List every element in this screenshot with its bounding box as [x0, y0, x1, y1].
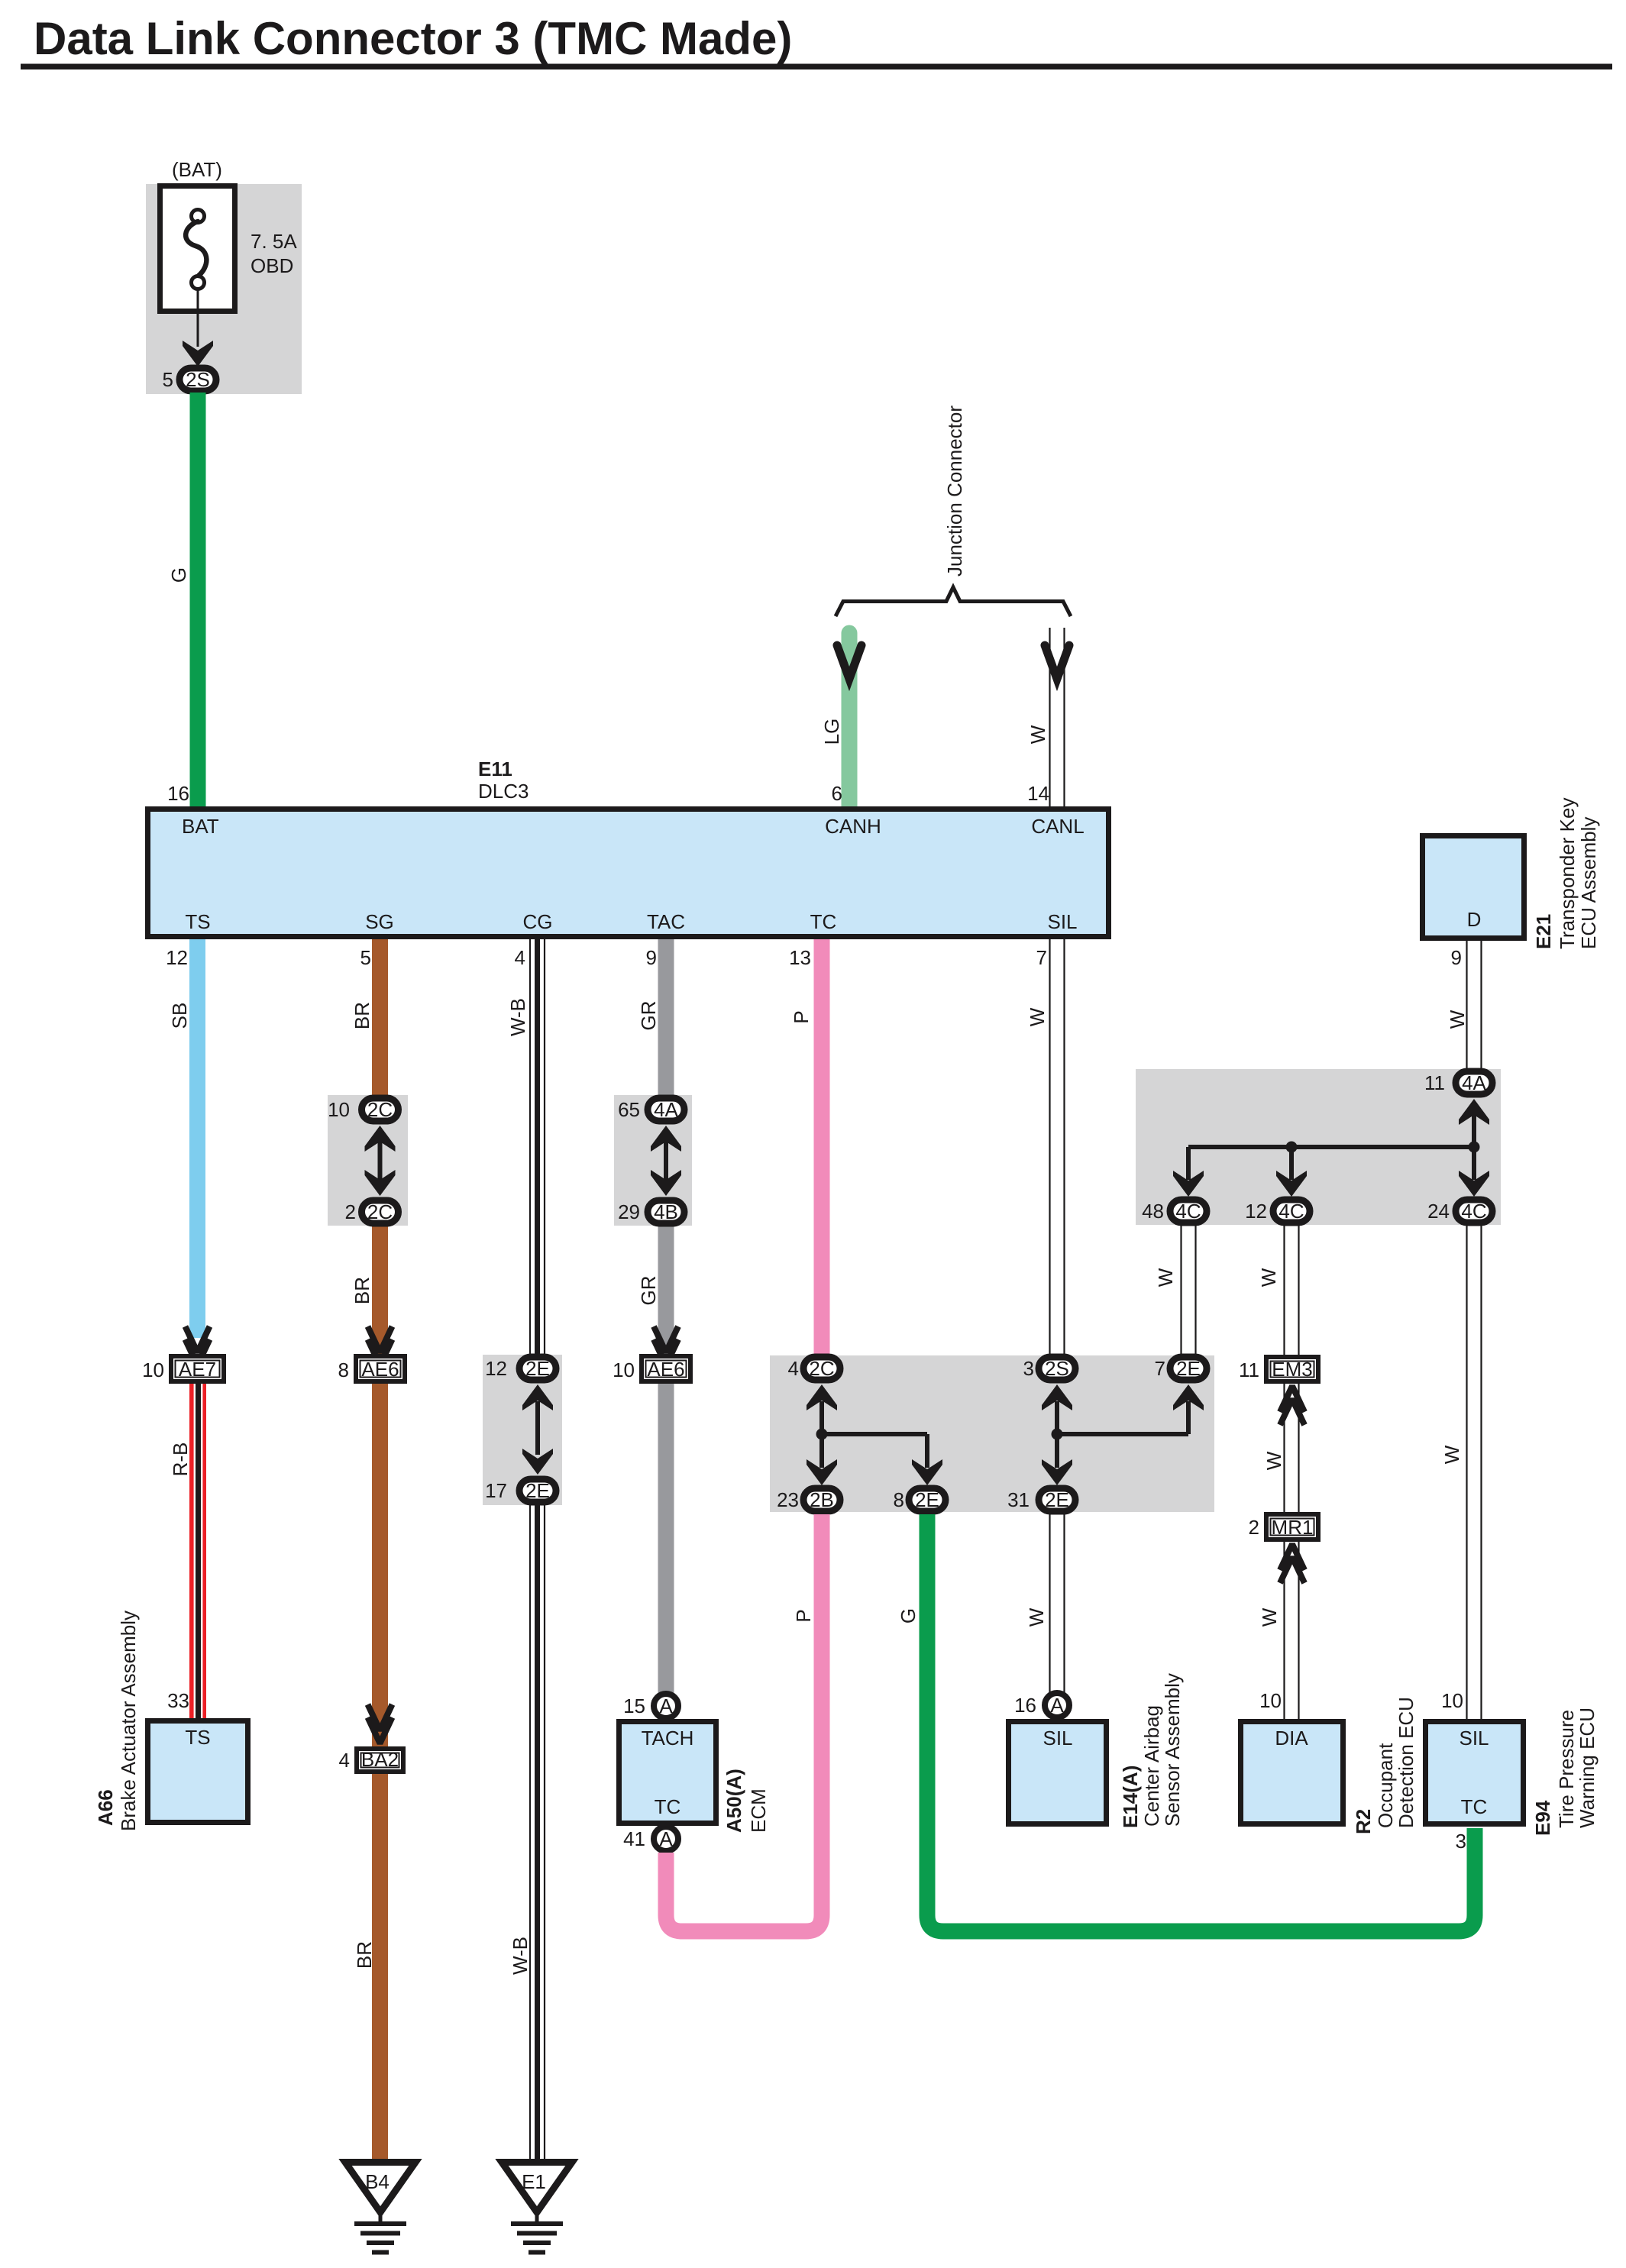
svg-text:G: G	[167, 567, 190, 583]
svg-text:TACH: TACH	[642, 1727, 694, 1749]
svg-text:(BAT): (BAT)	[172, 158, 222, 181]
component E94 Tire Pressure Warning ECU box	[1426, 1722, 1524, 1824]
svg-text:W: W	[1262, 1451, 1285, 1470]
svg-text:12: 12	[166, 946, 188, 969]
svg-text:CANL: CANL	[1031, 815, 1084, 838]
svg-text:10: 10	[142, 1359, 164, 1381]
svg-text:7. 5A: 7. 5A	[251, 230, 297, 253]
arrow into connector AE6 (TAC)	[654, 1326, 678, 1365]
connector BA2 pin 4	[357, 1748, 403, 1772]
svg-text:6: 6	[832, 782, 842, 805]
component A66 Brake Actuator Assembly box	[148, 1721, 248, 1823]
wire W from 2E pin 31 to E14	[1050, 1514, 1065, 1693]
svg-text:W: W	[1026, 1007, 1049, 1026]
svg-text:DIA: DIA	[1275, 1727, 1308, 1749]
svg-text:4B: 4B	[654, 1200, 678, 1223]
connector A pin 41 (ECM)	[654, 1827, 678, 1851]
svg-text:GR: GR	[637, 1276, 660, 1306]
svg-text:W: W	[1154, 1268, 1177, 1287]
svg-text:24: 24	[1427, 1200, 1450, 1223]
svg-text:BR: BR	[351, 1277, 373, 1304]
svg-text:2E: 2E	[1045, 1488, 1069, 1511]
connector 2E pin 8	[909, 1488, 946, 1511]
svg-text:BR: BR	[353, 1941, 376, 1969]
svg-text:17: 17	[485, 1479, 507, 1502]
arrow on CANL wire	[1045, 645, 1069, 679]
svg-text:W: W	[1446, 1010, 1469, 1029]
link 2C to 2B and 2E	[807, 1384, 942, 1485]
svg-text:A: A	[659, 1827, 673, 1850]
connector 4C pin 48	[1170, 1200, 1207, 1223]
wire GR from DLC3 pin 9 (upper)	[658, 939, 674, 1113]
svg-text:D: D	[1467, 908, 1482, 931]
svg-text:W: W	[1025, 1607, 1048, 1627]
wire BR from DLC3 pin 5 (upper)	[372, 939, 388, 1113]
link between 2C connectors	[365, 1126, 396, 1196]
svg-text:AE7: AE7	[179, 1358, 216, 1381]
connector 4C pin 12	[1273, 1200, 1310, 1223]
svg-text:MR1: MR1	[1272, 1516, 1314, 1539]
title underline	[21, 64, 1612, 70]
connector 2S pin 3	[1039, 1357, 1075, 1380]
svg-text:CANH: CANH	[825, 815, 881, 838]
connector AE6 pin 10	[642, 1356, 690, 1381]
wire W CANL from junction connector	[1050, 628, 1065, 806]
svg-text:4: 4	[788, 1357, 799, 1380]
wire BR lower section to ground B4	[372, 1208, 388, 2162]
svg-text:2: 2	[1249, 1516, 1259, 1539]
junction block background (2C pair)	[328, 1095, 408, 1226]
svg-text:TC: TC	[655, 1795, 681, 1818]
wire W from 4C pin 48 to 2E pin 7	[1182, 1225, 1196, 1354]
svg-text:TC: TC	[810, 910, 837, 933]
component R2 Occupant Detection ECU box	[1241, 1722, 1343, 1824]
connector EM3 pin 11	[1266, 1357, 1318, 1381]
svg-text:TC: TC	[1461, 1795, 1488, 1818]
svg-text:Center Airbag: Center Airbag	[1140, 1705, 1163, 1827]
wire W-B lower section to ground E1	[530, 1504, 545, 2162]
svg-text:9: 9	[1451, 946, 1462, 969]
wire P from 2B to ECM pin 41	[666, 1514, 822, 1931]
svg-text:E14(A): E14(A)	[1119, 1766, 1142, 1828]
svg-text:2E: 2E	[1176, 1357, 1201, 1380]
component E14(A) Center Airbag Sensor box	[1009, 1722, 1107, 1824]
connector A pin 15 (ECM)	[654, 1694, 678, 1718]
svg-text:2C: 2C	[367, 1200, 393, 1223]
svg-text:23: 23	[777, 1488, 799, 1511]
svg-text:2E: 2E	[915, 1488, 939, 1511]
fuse block background	[146, 184, 302, 394]
svg-text:2E: 2E	[525, 1357, 550, 1380]
svg-text:W: W	[1257, 1268, 1280, 1287]
wire P from DLC3 pin 13	[814, 939, 830, 1356]
svg-text:B4: B4	[365, 2170, 390, 2193]
svg-text:Brake Actuator Assembly: Brake Actuator Assembly	[117, 1611, 140, 1831]
connector 4A pin 11	[1456, 1071, 1492, 1094]
svg-text:7: 7	[1036, 946, 1047, 969]
wire W from 4C pin 24 to E94	[1467, 1225, 1482, 1719]
connector A pin 16 (E14)	[1045, 1693, 1069, 1717]
link 2S to 2E connectors	[1042, 1384, 1204, 1485]
svg-text:OBD: OBD	[251, 254, 293, 277]
svg-text:Occupant: Occupant	[1374, 1743, 1397, 1828]
svg-text:TS: TS	[185, 910, 210, 933]
arrow into connector BA2	[368, 1704, 393, 1743]
connector E11 DLC3 box	[148, 809, 1109, 937]
svg-text:AE6: AE6	[647, 1358, 684, 1381]
svg-text:29: 29	[618, 1200, 640, 1223]
svg-text:11: 11	[1239, 1359, 1259, 1381]
ground E1	[502, 2163, 572, 2253]
svg-text:SB: SB	[168, 1003, 191, 1029]
svg-text:Warning ECU: Warning ECU	[1576, 1707, 1599, 1828]
svg-text:9: 9	[646, 946, 657, 969]
wire W from E21 pin 9 to 4A	[1467, 941, 1482, 1069]
svg-text:ECU Assembly: ECU Assembly	[1577, 817, 1600, 949]
wire G from 2E pin 8 to E94 TC	[927, 1514, 1475, 1931]
wire LG CANH from junction connector	[842, 633, 858, 809]
svg-text:4: 4	[339, 1749, 350, 1772]
svg-text:Sensor Assembly: Sensor Assembly	[1161, 1673, 1184, 1827]
junction block background (4A/4C)	[1136, 1069, 1501, 1225]
svg-text:TAC: TAC	[647, 910, 685, 933]
svg-text:33: 33	[167, 1689, 189, 1712]
component ECM box (TACH/TC)	[619, 1722, 716, 1824]
wire fuse to connector 2S	[197, 289, 199, 347]
svg-text:E94: E94	[1531, 1800, 1554, 1836]
svg-text:P: P	[790, 1010, 813, 1023]
svg-text:SG: SG	[365, 910, 394, 933]
svg-text:31: 31	[1007, 1488, 1030, 1511]
svg-text:15: 15	[623, 1695, 645, 1717]
link 4A to 4C connectors	[1173, 1099, 1489, 1197]
svg-text:R2: R2	[1352, 1809, 1375, 1834]
svg-text:4C: 4C	[1278, 1200, 1304, 1223]
svg-text:A66: A66	[94, 1789, 117, 1826]
svg-text:3: 3	[1456, 1830, 1466, 1853]
component E21 Transponder Key ECU box	[1423, 836, 1524, 939]
connector 2E pin 7	[1170, 1357, 1207, 1380]
connector 2E pin 12	[519, 1357, 556, 1380]
svg-text:5: 5	[163, 368, 173, 391]
svg-text:ECM: ECM	[747, 1788, 770, 1833]
svg-text:P: P	[792, 1609, 815, 1622]
junction block background (central 2C/2B/2S/2E)	[770, 1355, 1214, 1512]
svg-text:12: 12	[485, 1357, 507, 1380]
svg-text:10: 10	[1441, 1689, 1463, 1712]
arrow on CANH wire	[837, 645, 861, 679]
svg-text:14: 14	[1027, 782, 1049, 805]
ground B4	[345, 2163, 415, 2253]
svg-text:Data Link Connector 3 (TMC Mad: Data Link Connector 3 (TMC Made)	[34, 13, 792, 64]
svg-text:Tire Pressure: Tire Pressure	[1555, 1710, 1578, 1828]
wire G from fuse 2S to DLC3 pin 16	[190, 393, 206, 809]
arrow below MR1	[1280, 1544, 1304, 1583]
connector AE6 pin 8	[356, 1356, 405, 1381]
svg-text:2S: 2S	[1045, 1357, 1069, 1380]
svg-text:A: A	[1050, 1694, 1064, 1717]
connector 2S pin 5	[179, 368, 216, 391]
svg-text:GR: GR	[637, 1001, 660, 1031]
svg-text:BR: BR	[351, 1002, 373, 1029]
link between 4A and 4B connectors	[651, 1126, 681, 1196]
svg-text:5: 5	[360, 946, 371, 969]
connector 4B pin 29	[648, 1200, 684, 1223]
junction connector brace	[836, 587, 1071, 616]
fuse 7.5A OBD box	[160, 186, 235, 312]
svg-text:8: 8	[894, 1488, 904, 1511]
connector 2E pin 17	[519, 1479, 556, 1502]
svg-text:A50(A): A50(A)	[722, 1769, 745, 1833]
svg-text:Transponder Key: Transponder Key	[1556, 798, 1579, 949]
connector 2C pin 4	[803, 1357, 840, 1380]
svg-text:A: A	[659, 1695, 673, 1717]
svg-text:2E: 2E	[525, 1479, 550, 1502]
fuse element symbol	[186, 210, 206, 289]
connector AE7 pin 10	[171, 1356, 224, 1381]
svg-text:Detection ECU: Detection ECU	[1395, 1697, 1417, 1828]
connector MR1 pin 2	[1266, 1514, 1318, 1539]
svg-text:Junction Connector: Junction Connector	[943, 405, 966, 577]
svg-text:10: 10	[1259, 1689, 1282, 1712]
svg-text:4: 4	[515, 946, 525, 969]
svg-text:65: 65	[618, 1098, 640, 1121]
svg-text:W-B: W-B	[506, 998, 529, 1036]
svg-text:E11: E11	[478, 758, 512, 780]
svg-text:SIL: SIL	[1047, 910, 1077, 933]
svg-text:R-B: R-B	[169, 1443, 192, 1477]
svg-text:4C: 4C	[1175, 1200, 1201, 1223]
svg-text:16: 16	[1014, 1694, 1036, 1717]
svg-text:12: 12	[1245, 1200, 1267, 1223]
svg-text:2C: 2C	[809, 1357, 834, 1380]
svg-text:E21: E21	[1532, 914, 1555, 949]
svg-text:13: 13	[789, 946, 811, 969]
svg-text:2S: 2S	[186, 368, 210, 391]
wire W from 4C pin 12 to EM3	[1285, 1225, 1299, 1355]
svg-text:10: 10	[613, 1359, 635, 1381]
svg-text:TS: TS	[185, 1726, 210, 1749]
svg-text:41: 41	[623, 1827, 645, 1850]
junction block background (2E pair)	[483, 1355, 562, 1505]
svg-text:10: 10	[328, 1098, 350, 1121]
svg-text:2B: 2B	[810, 1488, 834, 1511]
wire R-B from AE7 to A66	[189, 1384, 206, 1720]
arrow into connector 2S	[183, 341, 213, 367]
arrow into connector AE7	[186, 1326, 210, 1365]
arrow below EM3	[1280, 1386, 1304, 1425]
svg-text:EM3: EM3	[1272, 1358, 1312, 1381]
svg-text:4A: 4A	[654, 1098, 678, 1121]
arrow into connector AE6	[368, 1326, 393, 1365]
svg-text:4A: 4A	[1462, 1071, 1486, 1094]
svg-text:W: W	[1026, 725, 1049, 744]
svg-text:SIL: SIL	[1459, 1727, 1489, 1749]
junction block background (4A/4B pair)	[614, 1095, 692, 1226]
connector 2C pin 10	[362, 1098, 399, 1121]
svg-text:G: G	[897, 1608, 920, 1623]
wire W from MR1 to DIA	[1285, 1542, 1299, 1719]
svg-text:3: 3	[1023, 1357, 1034, 1380]
connector 2B pin 23	[803, 1488, 840, 1511]
svg-text:BA2: BA2	[361, 1748, 399, 1771]
svg-text:W: W	[1258, 1607, 1281, 1627]
wire W from EM3 to MR1	[1285, 1384, 1299, 1512]
svg-text:SIL: SIL	[1043, 1727, 1072, 1749]
svg-text:11: 11	[1424, 1071, 1445, 1094]
svg-text:2C: 2C	[367, 1098, 393, 1121]
svg-text:E1: E1	[522, 2170, 546, 2193]
svg-text:AE6: AE6	[361, 1358, 399, 1381]
connector 4A pin 65	[648, 1098, 684, 1121]
svg-text:DLC3: DLC3	[478, 780, 529, 803]
svg-text:CG: CG	[523, 910, 553, 933]
wire W-B from DLC3 pin 4 (upper)	[530, 939, 545, 1356]
wire SB from DLC3 pin 12	[189, 939, 205, 1338]
svg-text:4C: 4C	[1461, 1200, 1486, 1223]
svg-text:7: 7	[1155, 1357, 1165, 1380]
svg-text:48: 48	[1142, 1200, 1164, 1223]
connector 2E pin 31	[1039, 1488, 1075, 1511]
wire W from DLC3 pin 7 SIL	[1050, 939, 1065, 1356]
svg-text:LG: LG	[820, 719, 843, 745]
svg-text:16: 16	[167, 782, 189, 805]
svg-text:2: 2	[345, 1200, 356, 1223]
svg-text:W-B: W-B	[509, 1937, 532, 1975]
svg-text:W: W	[1440, 1445, 1463, 1464]
link between 2E connectors	[522, 1384, 553, 1475]
connector 2C pin 2	[362, 1200, 399, 1223]
svg-text:BAT: BAT	[182, 815, 219, 838]
svg-text:8: 8	[338, 1359, 349, 1381]
wire GR lower section to ECM	[658, 1208, 674, 1694]
connector 4C pin 24	[1456, 1200, 1492, 1223]
